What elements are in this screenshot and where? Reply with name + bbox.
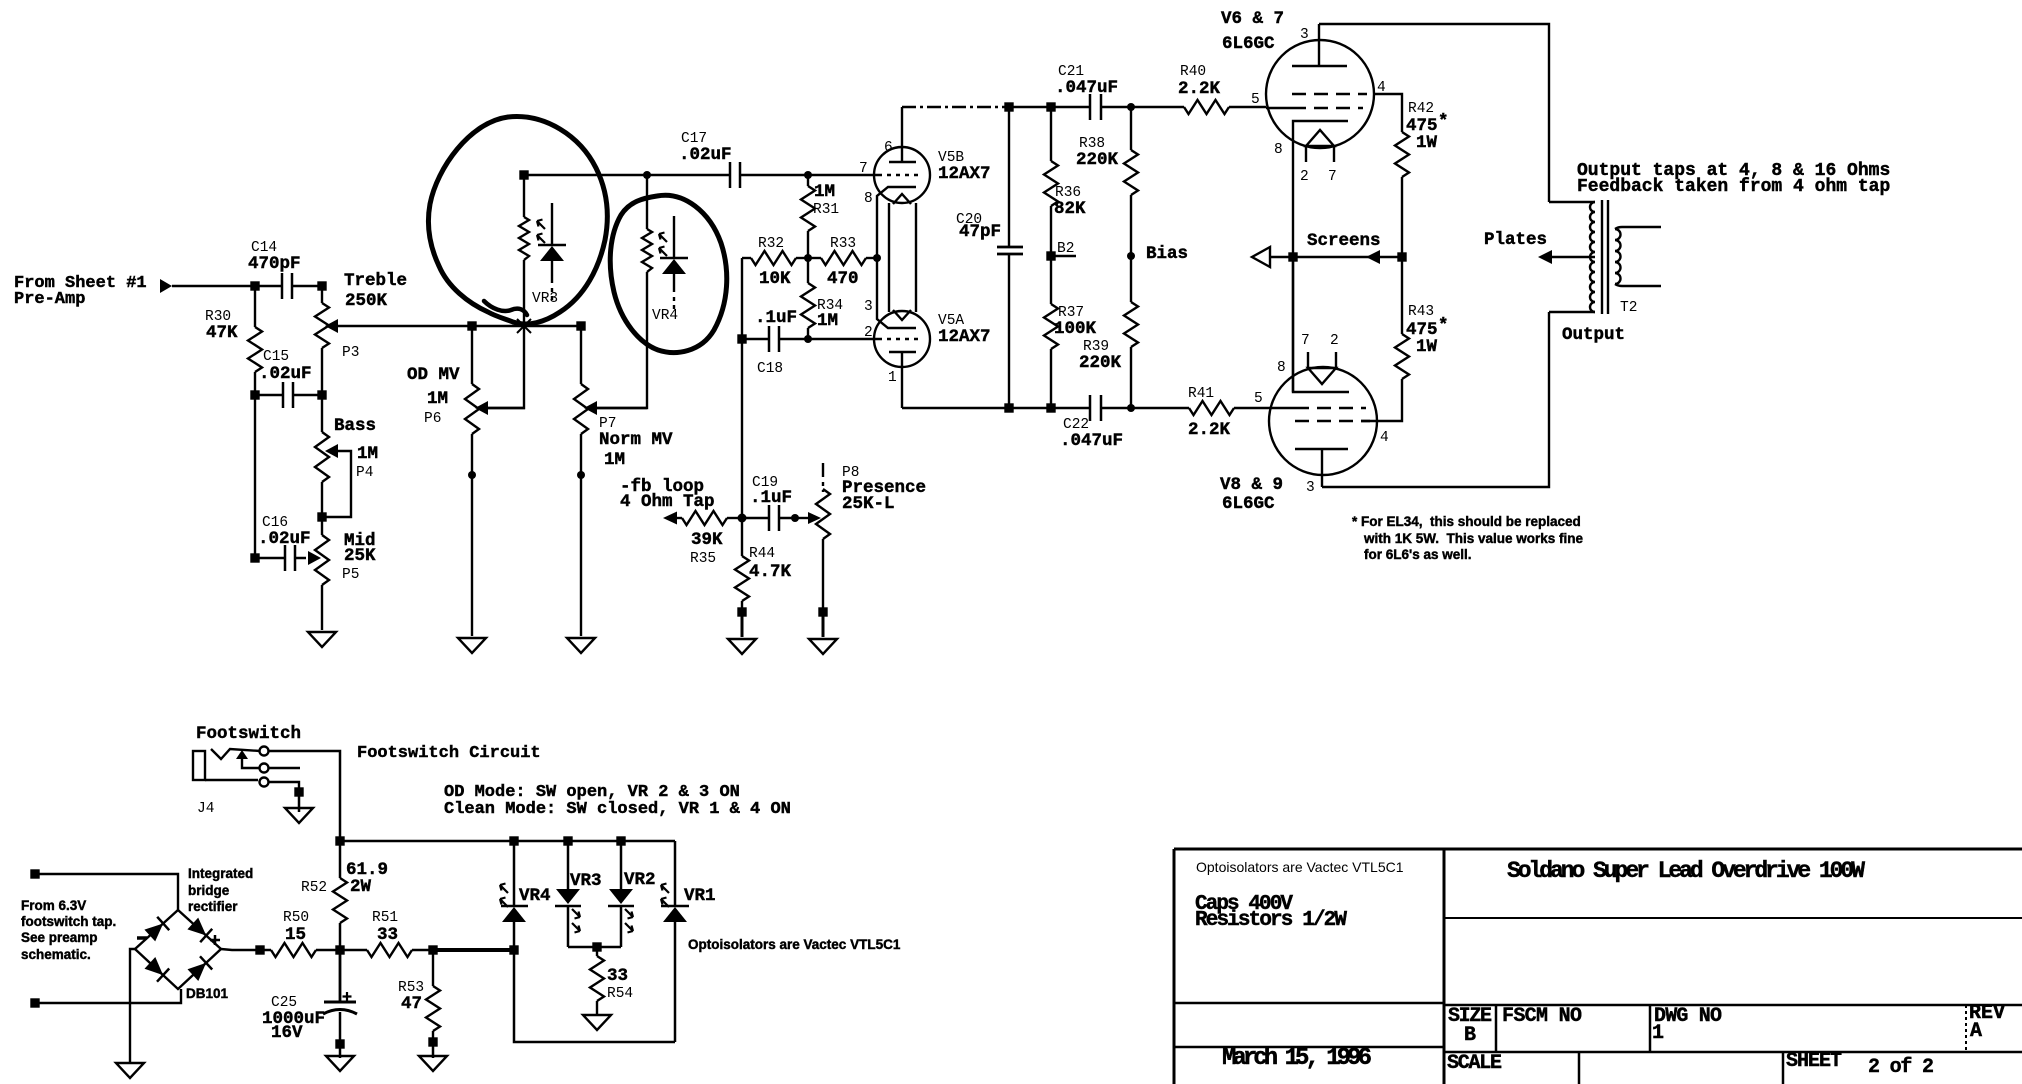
label Footswitch [196,724,301,744]
label Output [1562,325,1625,345]
pentode V6&7 heater (pins 2,7) [1306,130,1334,162]
triode V5B plate (pin 6) [889,107,916,162]
svg-text:25K: 25K [344,546,376,566]
label R51 33 [372,910,398,945]
potentiometer P4 Bass [315,432,351,517]
node dot top of VR4 [643,171,651,179]
svg-text:250K: 250K [345,291,388,311]
potentiometer P7 Norm MV [574,326,647,636]
svg-text:6L6GC: 6L6GC [1222,34,1275,54]
title block: caps resistors [1195,893,1347,932]
node: bus/R52 [337,838,344,845]
node: C17 right / R31 top [804,171,812,179]
filled arrow on screens rail [1366,250,1380,264]
title block horizontal line above size row left [1174,1002,1444,1005]
node: C15 right / treble bottom [319,392,326,399]
svg-text:.047uF: .047uF [1055,78,1118,98]
svg-text:FSCM NO: FSCM NO [1502,1005,1582,1028]
footswitch bus rail [340,840,675,843]
node: P7 lower junction dot [577,471,585,479]
svg-text:VR4: VR4 [652,308,678,324]
node: R36 top [1048,104,1055,111]
svg-text:4 Ohm Tap: 4 Ohm Tap [620,492,715,512]
label R53 47 [398,980,424,1014]
svg-text:2W: 2W [350,877,372,897]
ground: bridge minus [116,1063,144,1078]
svg-text:.047uF: .047uF [1060,431,1123,451]
label: From Sheet #1 Pre-Amp [14,274,147,309]
svg-text:3: 3 [1306,480,1315,496]
label VR3 [532,291,558,307]
label Plates [1484,230,1547,250]
pentode V6&7 plate (pin 3) [1292,24,1347,66]
node B2 stub [1051,255,1076,257]
svg-text:R40: R40 [1180,64,1206,80]
triode V5A cathode (pin 3) [877,258,916,328]
potentiometer P8 Presence [816,463,830,612]
title block: FSCM NO [1502,1005,1582,1028]
svg-text:.02uF: .02uF [259,364,312,384]
node: NFB junction [738,514,747,523]
bridge diode top-right [187,918,212,943]
svg-text:7: 7 [1301,333,1310,349]
node: R31 bottom / PI tail [804,254,812,262]
node: C20 top [1006,104,1013,111]
svg-text:8: 8 [1274,142,1283,158]
svg-text:1M: 1M [357,444,378,464]
svg-text:Footswitch Circuit: Footswitch Circuit [357,744,541,763]
label C17 .02uF [679,131,732,165]
node sq top of VR3 [521,172,528,179]
resistor R43 475 1W [1361,257,1409,421]
svg-text:25K-L: 25K-L [842,494,895,514]
wire: treble wiper to MV pots [472,325,581,327]
feedback arrow to 4 ohm tap [663,512,682,525]
LED VR4 footswitch [500,841,528,950]
svg-text:470pF: 470pF [248,254,301,274]
label V5B 12AX7 [938,150,991,184]
label P8 Presence 25K-L [842,465,926,514]
bridge diode bottom-left [145,957,170,982]
pentode V6&7 control grid (pin 5) [1266,107,1363,110]
label C22 .047uF [1060,417,1123,451]
title block divider fscm/dwg [1649,1005,1652,1052]
label R52 61.9 2W [301,860,388,897]
resistor R54 33 [590,947,604,1015]
svg-text:R44: R44 [749,546,775,562]
node: top AC input end [32,871,39,878]
svg-text:16V: 16V [271,1023,303,1043]
title block: SIZE B [1448,1005,1492,1047]
hand-drawn circle around VR4 [610,195,727,352]
svg-text:39K: 39K [691,530,723,550]
optocoupler VR4 LDR [597,175,652,408]
resistor R53 47 [426,950,440,1042]
svg-text:33: 33 [377,925,398,945]
svg-text:7: 7 [859,161,868,177]
triode V5A plate (pin 1) [889,352,916,408]
capacitor C18 [742,326,874,352]
svg-text:8: 8 [864,191,873,207]
wire: C15 node down to bass pot [321,395,323,432]
pin labels V8&9 [1254,333,1389,496]
label R50 15 [283,910,309,945]
svg-text:for 6L6's as well.: for 6L6's as well. [1364,547,1472,562]
svg-text:footswitch tap.: footswitch tap. [21,914,116,929]
node: input junction [252,283,259,290]
resistor R39 220K [1124,256,1138,408]
ground: mid pot [308,632,336,647]
svg-text:1M: 1M [604,450,625,470]
label R39 220K [1079,339,1122,373]
label V5A 12AX7 [938,313,991,347]
svg-text:From 6.3V: From 6.3V [21,898,86,913]
svg-text:with 1K 5W. This value works: with 1K 5W. This value works fine [1363,531,1584,546]
title block: DWG NO 1 [1652,1005,1722,1045]
svg-text:B2: B2 [1057,241,1074,257]
node: B2 junction [1048,253,1055,260]
wire: bottom loop VR4 node to VR1 [514,950,675,1042]
node: R34 bottom / C18 right [804,335,812,343]
label 33 R54 [607,966,633,1002]
node: P6 lower junction dot [468,471,476,479]
svg-text:Bias: Bias [1146,244,1188,264]
wire+ground C25 [339,1044,342,1058]
label R38 220K [1076,136,1119,170]
label Mid 25K P5 [342,531,376,583]
label VR4 footswitch [519,886,551,906]
svg-text:.1uF: .1uF [750,488,792,508]
node: R54 top [594,944,601,951]
label .1uF C18 [755,308,797,377]
title block horizontal line above size row right [1444,1004,2022,1007]
wire: jack tip contact to bus [269,751,340,841]
label C16 .02uF [258,515,311,549]
pentode V6&7 screen grid (pin 4) [1292,94,1402,132]
svg-text:10K: 10K [759,269,791,289]
pentode V6&7 envelope [1266,40,1374,148]
label R33 470 [827,236,859,289]
svg-text:March 15, 1996: March 15, 1996 [1222,1045,1372,1072]
wire: R51 node to VR4 bottom (thick) [433,948,514,952]
node: bottom AC input end [32,1000,39,1007]
label P7 Norm MV 1M [599,416,673,470]
capacitor C21 [1090,94,1184,120]
bridge diode top-left [144,917,169,942]
node: sleeve ground dot [296,789,303,796]
transformer T2 primary [1549,202,1595,312]
pentode V6&7 cathode (pin 8) [1293,121,1348,257]
label V8 & 9 6L6GC [1220,475,1283,514]
title block divider sheet cell [1782,1052,1785,1084]
svg-text:4: 4 [1380,430,1389,446]
svg-text:Soldano Super Lead Overdrive 1: Soldano Super Lead Overdrive 100W [1507,858,1865,884]
label Treble 250K P3 [342,271,407,361]
node: C21 right / R38 top [1127,103,1135,111]
resistor R40 [1184,100,1266,114]
label integrated bridge rectifier [188,866,253,914]
LED VR3 footswitch [555,841,581,947]
ground: OD MV pot [458,638,486,653]
arrow: input from sheet 1 [160,279,255,293]
transformer T2 secondary [1615,227,1661,286]
label C15 .02uF [259,349,312,384]
label R40 2.2K [1178,64,1221,99]
label R43 475* 1W [1406,304,1449,357]
svg-text:7: 7 [1328,169,1337,185]
resistor R32 [742,251,808,265]
node: C22 right / R39 bottom [1127,404,1135,412]
resistor R31 [801,175,815,258]
svg-text:V8 & 9: V8 & 9 [1220,475,1283,495]
svg-text:P3: P3 [342,345,359,361]
capacitor C16 [255,395,306,571]
node: screens/R42 R43 [1399,254,1406,261]
title block divider size/fscm [1495,1005,1498,1052]
svg-text:B: B [1464,1024,1476,1047]
label VR2 footswitch [624,870,656,890]
triode V5A envelope [874,311,930,367]
node: plus lead dot [257,947,264,954]
triode V5B grid (pin 7) [874,174,918,177]
label -fb loop 4 Ohm Tap [620,477,715,512]
svg-text:OD MV: OD MV [407,365,460,385]
svg-text:2 of 2: 2 of 2 [1868,1056,1934,1079]
bridge diode bottom-right [188,956,213,981]
ground: R53 [419,1056,447,1071]
svg-text:8: 8 [1277,360,1286,376]
svg-text:.02uF: .02uF [679,145,732,165]
svg-text:2.2K: 2.2K [1178,79,1221,99]
resistor R34 [801,258,815,339]
capacitor C22 [1090,395,1189,421]
node: C16 left on R30 line [252,555,259,562]
svg-text:220K: 220K [1076,150,1119,170]
resistor R30 [248,286,262,395]
wire: VR3-VR2 cathode link [568,946,621,949]
svg-text:DB101: DB101 [186,986,229,1001]
wire: top AC input [35,874,178,910]
svg-text:DWG NO: DWG NO [1654,1005,1722,1028]
ground: jack sleeve [285,808,313,823]
label T2 [1620,300,1637,316]
capacitor C20 47pF [997,107,1023,408]
svg-text:Resistors 1/2W: Resistors 1/2W [1195,909,1347,932]
label from 6.3V note [21,898,116,962]
potentiometer P5 Mid [308,517,329,630]
triode V5B cathode (pin 8) [877,187,916,258]
svg-text:100K: 100K [1054,319,1097,339]
title block divider vertical main [1443,849,1446,1084]
svg-text:1W: 1W [1416,337,1438,357]
plates center tap arrow [1538,250,1595,264]
svg-text:SCALE: SCALE [1447,1052,1502,1075]
title block: Soldano Super Lead Overdrive 100W [1507,858,1865,884]
label Bias [1146,244,1188,264]
title block divider dwg/rev dotted [1965,1005,1967,1052]
wire: bottom AC input [35,989,181,1003]
wire: NFB riser R32/C18 to fb node [741,258,743,518]
title block: SHEET 2 of 2 [1786,1050,1934,1079]
potentiometer P6 OD MV [465,326,525,636]
svg-text:SHEET: SHEET [1786,1050,1842,1073]
svg-text:2: 2 [864,325,873,341]
label C14 470pF [248,240,301,274]
svg-text:C15: C15 [263,349,289,365]
resistor R42 475 1W [1395,132,1409,257]
label C19 .1uF [750,475,792,508]
label C20 47pF [956,212,1001,242]
pentode V8&9 heater (pins 7,2) [1308,352,1336,384]
svg-text:See preamp: See preamp [21,930,98,945]
wire: jack ring stub [269,767,300,769]
wire: jack sleeve to ground [269,782,299,791]
svg-text:Bass: Bass [334,416,376,436]
optocoupler VR3 LDR [488,175,531,408]
label OD MV 1M P6 [407,365,460,427]
label J4 [197,801,214,817]
node: Bias junction [1127,252,1135,260]
wire: bottom rail from V5A plate [902,407,1090,409]
svg-text:R41: R41 [1188,386,1214,402]
svg-text:47pF: 47pF [959,222,1001,242]
ground: P8 [809,639,837,654]
svg-text:C18: C18 [757,361,783,377]
resistor R36 82K [1044,107,1058,256]
svg-text:V6 & 7: V6 & 7 [1221,9,1284,29]
potentiometer P3 Treble [315,286,472,395]
svg-text:3: 3 [1300,27,1309,43]
svg-text:5: 5 [1254,391,1263,407]
svg-text:A: A [1970,1020,1982,1043]
svg-text:6L6GC: 6L6GC [1222,494,1275,514]
capacitor C15 [255,382,322,408]
svg-text:220K: 220K [1079,353,1122,373]
node: screens/pin8 riser [1290,254,1297,261]
svg-text:T2: T2 [1620,300,1637,316]
svg-text:VR2: VR2 [624,870,656,890]
label C25 1000uF 16V [262,995,325,1043]
capacitor C14 [255,273,322,299]
node: C20 bottom [1006,405,1013,412]
bridge minus sign [137,936,147,940]
optocoupler VR4 LED [659,216,688,309]
node: R33 right at cathode line [873,254,881,262]
node: C19 right dot [791,514,799,522]
node: bass bottom junction [319,514,326,521]
jack J4 contacts [260,747,269,787]
svg-text:* For EL34, this should be re: * For EL34, this should be replaced [1352,514,1581,529]
svg-text:R32: R32 [758,236,784,252]
capacitor C25 1000uF [323,950,357,1044]
node: C25 bottom [337,1041,344,1048]
svg-text:R51: R51 [372,910,398,926]
svg-text:R43: R43 [1408,304,1434,320]
svg-text:P5: P5 [342,567,359,583]
title block: optoisolators [1196,859,1404,875]
label R44 4.7K [749,546,792,582]
svg-text:Feedback taken from 4 ohm tap: Feedback taken from 4 ohm tap [1577,177,1890,197]
svg-text:.1uF: .1uF [755,308,797,328]
label DB101 [186,986,229,1001]
label Bass 1M P4 [334,416,378,481]
svg-text:Output: Output [1562,325,1625,345]
svg-text:1W: 1W [1416,133,1438,153]
svg-text:6: 6 [884,140,893,156]
resistor R35 39K [682,511,742,525]
label R37 100K [1054,305,1097,339]
label C21 .047uF [1055,64,1118,98]
svg-text:82K: 82K [1054,199,1086,219]
node: OD MV top [469,323,476,330]
resistor R52 61.9 2W [333,841,347,950]
svg-text:5: 5 [1251,92,1260,108]
node: P7 top [578,323,585,330]
svg-text:470: 470 [827,269,859,289]
svg-text:3: 3 [864,299,873,315]
ground: R44 [728,639,756,654]
wire: top rail C21 area [1009,106,1090,108]
label VR3 footswitch [570,871,602,891]
node: R51/R53 [430,947,437,954]
note: EL34 replacement [1352,514,1584,562]
wire: top node rail to C17 [524,174,730,176]
svg-text:15: 15 [285,925,306,945]
svg-text:4.7K: 4.7K [749,562,792,582]
label VR1 footswitch [684,886,716,906]
pentode V8&9 envelope [1269,367,1377,475]
svg-text:1M: 1M [814,182,835,202]
LED VR1 footswitch [661,841,689,1042]
hand-drawn circle around VR3 [428,117,607,324]
pentode V8&9 screen grid (pin 4) [1295,420,1370,423]
node: R50/R52/C25 [337,947,344,954]
title block border left [1173,849,1176,1084]
tube envelope neck between V5A and V5B [889,194,916,320]
node: bus/VR2 [618,838,625,845]
svg-text:12AX7: 12AX7 [938,164,991,184]
svg-text:R31: R31 [813,202,839,218]
svg-text:R33: R33 [830,236,856,252]
svg-text:R35: R35 [690,551,716,567]
svg-text:VR1: VR1 [684,886,716,906]
svg-text:*: * [1438,316,1449,336]
svg-text:12AX7: 12AX7 [938,327,991,347]
wire+ground jack sleeve [298,792,301,812]
label R41 2.2K [1188,386,1231,440]
label Screens [1307,231,1381,251]
ground: Norm MV pot [567,638,595,653]
resistor R51 33 [340,943,433,957]
svg-text:.02uF: .02uF [258,529,311,549]
capacitor C19 [742,505,795,531]
svg-text:R52: R52 [301,880,327,896]
node: C14 right / treble top [319,283,326,290]
label optoisolators note [688,937,901,952]
wire: V5B plate to top rail (dashy) [902,106,1009,108]
svg-text:Integrated: Integrated [188,866,253,881]
node: R37 bottom [1048,405,1055,412]
svg-text:Pre-Amp: Pre-Amp [14,290,85,309]
jack J4 tip lever [211,749,260,759]
svg-text:47K: 47K [206,323,238,343]
svg-text:1: 1 [1652,1022,1664,1045]
label B2 [1057,241,1074,257]
title block line under title [1444,917,2022,919]
svg-text:bridge: bridge [188,883,230,898]
label R36 82K [1054,185,1086,219]
bridge rectifier DB101 diamond [135,910,221,989]
